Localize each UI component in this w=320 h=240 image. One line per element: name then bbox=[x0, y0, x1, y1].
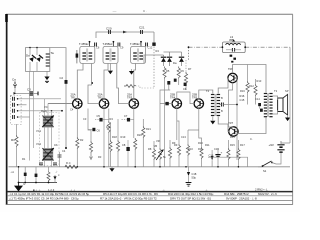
svg-text:R6: R6 bbox=[181, 69, 185, 73]
svg-text:TR1: TR1 bbox=[71, 96, 77, 100]
svg-text:R1: R1 bbox=[11, 138, 15, 142]
wire TR7 collector to output transformer bbox=[237, 118, 266, 134]
resistor R14 AGC horizontal bbox=[124, 85, 136, 88]
wire TR2 collector to IFT2 bbox=[104, 64, 108, 100]
resistor R24 stub bbox=[47, 167, 50, 183]
wire osc left leg down to gang bbox=[30, 71, 34, 160]
resistor R22 bbox=[200, 140, 203, 167]
diode D2 bbox=[36, 55, 43, 62]
resistor R9 bbox=[168, 140, 171, 167]
diode D5 bbox=[167, 52, 172, 66]
big ground lead bottom left bbox=[18, 167, 20, 183]
svg-text:50µ: 50µ bbox=[192, 175, 197, 179]
wire terminal 2 bbox=[18, 104, 26, 106]
svg-text:R1: R1 bbox=[22, 157, 26, 161]
svg-text:C·: C· bbox=[250, 137, 253, 141]
wire gang link 2 bbox=[47, 127, 49, 149]
wire gang to rail 1 bbox=[44, 161, 46, 167]
diode D3 bbox=[76, 50, 79, 63]
capacitor C17 below rail bbox=[186, 167, 197, 186]
transistor TR2 bbox=[98, 93, 109, 109]
svg-text:C16: C16 bbox=[214, 147, 219, 151]
top feedback wire bbox=[96, 32, 154, 38]
resistor R1 bbox=[11, 124, 18, 167]
svg-text:R10: R10 bbox=[198, 141, 203, 145]
capacitor C21 bbox=[139, 26, 145, 35]
wire antenna row bbox=[15, 92, 38, 94]
AGC dotted vertical wire bbox=[153, 47, 155, 89]
terminal J4 bbox=[13, 115, 19, 119]
junction dots on rail bbox=[18, 166, 240, 168]
IFT1 top tick bbox=[89, 41, 97, 47]
battery B1 bbox=[269, 141, 285, 159]
svg-text:Da: Da bbox=[173, 61, 177, 65]
bottom-left ground bus bbox=[19, 182, 58, 184]
svg-text:R4: R4 bbox=[156, 49, 160, 53]
svg-text:B: B bbox=[221, 96, 223, 100]
svg-text:C6: C6 bbox=[97, 129, 101, 133]
title block rule 2 bbox=[7, 195, 293, 197]
svg-text:C5: C5 bbox=[97, 114, 101, 118]
wire TR1 base bbox=[48, 103, 73, 105]
svg-text:R16: R16 bbox=[240, 89, 245, 93]
arrow mark left bbox=[14, 92, 17, 95]
wire right bus down bbox=[289, 47, 291, 143]
svg-text:R2: R2 bbox=[80, 138, 84, 142]
capacitor C6 bbox=[88, 128, 100, 133]
scattered small labels bbox=[10, 67, 262, 159]
svg-text:⊥2 C1 1µ C2 .04 10V R1 1k C3 1: ⊥2 C1 1µ C2 .04 10V R1 1k C3 10µ R2 56k … bbox=[9, 192, 89, 196]
wire detector top link bbox=[164, 51, 182, 53]
svg-text:R15: R15 bbox=[230, 143, 235, 147]
wire gang riser 2 bbox=[51, 111, 53, 116]
svg-text:Cb: Cb bbox=[183, 87, 187, 91]
wire IFT1 secondary to TR2 base bbox=[88, 64, 99, 104]
svg-text:C14: C14 bbox=[255, 97, 260, 101]
output transformer T3 bbox=[264, 93, 273, 117]
wire driver primary bottom to ground bbox=[212, 117, 214, 121]
svg-text:R7: R7 bbox=[188, 67, 192, 71]
speaker SP bbox=[278, 94, 288, 115]
antenna terminal capacitor C1 bbox=[12, 78, 17, 89]
wire osc line lower leg bbox=[65, 104, 67, 149]
junction dot osc top 2 bbox=[36, 47, 38, 49]
resistor R7 bbox=[184, 60, 187, 90]
wire TR2 emitter down bbox=[103, 108, 105, 167]
svg-text:R11: R11 bbox=[198, 147, 203, 151]
svg-text:R19: R19 bbox=[121, 135, 126, 139]
parts list row 2 text bbox=[9, 197, 257, 201]
capacitor C24 stub bbox=[35, 167, 38, 183]
junction dot osc top 1 bbox=[29, 47, 31, 49]
resistor R5 bbox=[163, 67, 166, 167]
arrow junction on top wire bbox=[123, 31, 127, 34]
label tank bbox=[229, 35, 234, 42]
capacitor C7 bbox=[122, 114, 134, 122]
IFT3 top tick bbox=[140, 41, 147, 47]
trimmer cap CT1 bbox=[39, 163, 43, 165]
svg-text:C ·: C · bbox=[143, 9, 147, 13]
wire gang link 3 bbox=[51, 127, 53, 149]
ground G5 speaker bbox=[285, 115, 290, 121]
svg-text:Da: Da bbox=[26, 54, 30, 58]
wire TR3 emitter down bbox=[133, 108, 135, 138]
ground G2 under IFT2 bbox=[108, 64, 113, 75]
diode D1 bbox=[29, 55, 36, 62]
ground G4 bbox=[210, 121, 215, 125]
driver transformer T2 bbox=[211, 94, 220, 116]
transistor TR6 bbox=[228, 67, 237, 83]
wire gang riser 1 bbox=[44, 99, 46, 116]
svg-text:S1: S1 bbox=[263, 169, 267, 173]
svg-text:C13: C13 bbox=[181, 135, 186, 139]
svg-text:Ca: Ca bbox=[12, 78, 16, 82]
variable capacitor VC2 bbox=[42, 148, 54, 161]
wire battery top hook bbox=[281, 141, 290, 143]
tuning gang dashed box bbox=[40, 113, 60, 166]
wire terminal 4 bbox=[18, 116, 30, 118]
svg-text:R10 220 C11 30µ R12 1.5k C13 5: R10 220 C11 30µ R12 1.5k C13 50µ bbox=[168, 192, 214, 196]
wire gang to rail 2 bbox=[51, 161, 53, 167]
svg-text:R4: R4 bbox=[110, 117, 114, 121]
parts list row 1 text bbox=[9, 192, 277, 196]
wire TR3 collector to IFT3 bbox=[134, 64, 136, 100]
svg-text:△1 T1 455kc IFT×3 OSC C5 .04 R: △1 T1 455kc IFT×3 OSC C5 .04 R3 10k R4 6… bbox=[9, 197, 79, 201]
svg-text:C20: C20 bbox=[106, 27, 112, 31]
wire terminal 1 bbox=[18, 98, 61, 100]
diode D7 stub bbox=[53, 175, 56, 183]
svg-text:C4: C4 bbox=[62, 149, 66, 153]
wire TR4 emitter bias bbox=[177, 108, 179, 140]
electrolytic capacitor C16 bbox=[209, 148, 223, 167]
tank coil bbox=[226, 43, 241, 45]
svg-text:⊥ ⊥: ⊥ ⊥ bbox=[70, 188, 76, 192]
svg-text:⊥A: ⊥A bbox=[10, 170, 14, 174]
svg-text:⊥·: ⊥· bbox=[55, 170, 58, 174]
svg-text:R7 1k 2SA101×2 · VR 5k C10 50µ: R7 1k 2SA101×2 · VR 5k C10 50µ R9 150 T2 bbox=[100, 197, 157, 201]
wire TR1 collector to IFT1 bbox=[77, 64, 83, 100]
wire TR6 collector to output transformer bbox=[233, 65, 266, 93]
diode D4 detector bbox=[161, 55, 166, 66]
coupling capacitor C13 bbox=[165, 102, 168, 105]
capacitor C2 on osc coupling bbox=[60, 76, 68, 84]
svg-text:R20: R20 bbox=[137, 133, 142, 137]
svg-text:R3: R3 bbox=[98, 155, 102, 159]
tank capacitor bbox=[226, 48, 241, 52]
variable capacitor VC1 bbox=[42, 116, 54, 128]
svg-text:6F22 9V · 2⊥6: 6F22 9V · 2⊥6 bbox=[258, 192, 277, 196]
svg-text:C7: C7 bbox=[124, 114, 128, 118]
svg-text:R·C: R·C bbox=[66, 161, 71, 165]
resistor R11 bbox=[186, 130, 189, 167]
border left top accent bbox=[5, 14, 8, 22]
border frame left (thick) bbox=[6, 14, 8, 205]
wire osc to ground bbox=[46, 71, 48, 76]
svg-text:C6: C6 bbox=[96, 46, 100, 50]
svg-text:C4: C4 bbox=[70, 108, 74, 112]
capacitor C4b marks bbox=[58, 155, 62, 157]
border frame right bbox=[292, 14, 294, 204]
svg-text:R16: R16 bbox=[240, 94, 245, 98]
tank tick marks bbox=[230, 39, 236, 62]
terminal end bar bbox=[37, 92, 39, 96]
terminal J2 bbox=[13, 103, 19, 107]
tank circuit dash-dot feed right bbox=[245, 46, 290, 48]
capacitor C8 blob bbox=[122, 140, 130, 167]
svg-text:C2: C2 bbox=[60, 76, 64, 80]
IF transformer IFT1 bbox=[79, 42, 95, 63]
wire TR5 emitter down bbox=[188, 108, 202, 140]
capacitor C20 bbox=[106, 27, 112, 35]
svg-text:VC1: VC1 bbox=[36, 129, 42, 133]
svg-text:■·⊥·⊥: ■·⊥·⊥ bbox=[33, 188, 42, 192]
resistor R6 bbox=[177, 67, 180, 86]
transistor TR1 bbox=[71, 93, 83, 109]
IFT2 top tick bbox=[113, 41, 120, 47]
ground G6 below rail bbox=[109, 167, 114, 172]
transistor TR3 bbox=[127, 93, 139, 109]
resistor R4 bbox=[107, 109, 110, 167]
junction dot tank left bbox=[222, 46, 224, 48]
ground G1 bbox=[44, 77, 49, 83]
schematic main ground rail bbox=[9, 166, 291, 168]
wire volume feed bbox=[160, 90, 170, 148]
wire IFT2 secondary to TR3 base bbox=[117, 64, 129, 104]
capacitor C19 blob bbox=[258, 103, 263, 112]
svg-text:R17: R17 bbox=[240, 143, 245, 147]
border frame top bbox=[6, 13, 293, 15]
wire driver secondary bottom to TR7 base bbox=[218, 117, 229, 132]
svg-text:VC: VC bbox=[44, 105, 48, 109]
svg-text:C18: C18 bbox=[192, 172, 197, 176]
border frame bottom bbox=[6, 203, 293, 205]
wire T3 secondary to speaker bbox=[273, 96, 278, 114]
resistor R10 bbox=[177, 140, 180, 167]
wire TR6 TR7 emitter bus bbox=[229, 83, 234, 128]
wire terminal 3 bbox=[18, 110, 63, 112]
svg-text:B: B bbox=[221, 109, 223, 113]
capacitor C23 stub bbox=[24, 167, 27, 183]
capacitor C10 blob bbox=[167, 81, 170, 90]
wire left bottom stub bbox=[59, 152, 61, 167]
svg-text:R5: R5 bbox=[166, 69, 170, 73]
diode D6 bbox=[179, 52, 184, 66]
resistor R8 bbox=[152, 141, 155, 167]
resistor R3 bbox=[88, 109, 93, 160]
oscillator coil windings bbox=[46, 54, 50, 66]
svg-text:R12: R12 bbox=[249, 84, 254, 88]
ground G3 under IFT3 bbox=[129, 69, 134, 75]
svg-text:C12: C12 bbox=[148, 46, 153, 50]
resistor R12 bbox=[246, 76, 249, 105]
terminal block dashed box bbox=[11, 96, 22, 125]
junction dot IFT1 secondary bbox=[91, 82, 93, 84]
title block top thick rule bbox=[7, 191, 293, 193]
wire osc internal verticals bbox=[30, 48, 37, 72]
svg-text:R8: R8 bbox=[148, 147, 152, 151]
switch S1 bbox=[258, 159, 281, 173]
trimmer cap CT2 bbox=[53, 163, 57, 165]
svg-text:VR: VR bbox=[156, 139, 160, 143]
svg-text:T.455kc↑: T.455kc↑ bbox=[79, 42, 91, 46]
svg-text:9V 006P · 2SA102 · ⊥·8: 9V 006P · 2SA102 · ⊥·8 bbox=[226, 197, 257, 201]
svg-text:R9: R9 bbox=[174, 143, 178, 147]
svg-text:R21: R21 bbox=[146, 127, 151, 131]
svg-text:DRV T3 OUT SP 8Ω S1 SW · B1: DRV T3 OUT SP 8Ω S1 SW · B1 bbox=[170, 197, 211, 201]
svg-text:R15: R15 bbox=[230, 135, 235, 139]
svg-text:TR2: TR2 bbox=[98, 96, 104, 100]
wire gang riser 0 bbox=[47, 104, 49, 116]
junction dot mid bus bbox=[236, 104, 238, 106]
svg-text:TR3: TR3 bbox=[127, 96, 133, 100]
svg-text:R11: R11 bbox=[205, 143, 210, 147]
svg-text:Ca·b: Ca·b bbox=[41, 109, 48, 113]
capacitor C22 blob bbox=[152, 43, 155, 46]
labels above title rule bbox=[33, 188, 268, 192]
resistor R21 bbox=[142, 119, 145, 167]
svg-text:T.455kc↑: T.455kc↑ bbox=[103, 42, 115, 46]
ground G0 big bbox=[15, 183, 22, 191]
wire B minus feed bbox=[208, 157, 248, 167]
svg-text:C21: C21 bbox=[139, 26, 145, 30]
svg-text:10k: 10k bbox=[106, 125, 111, 129]
svg-text:C15: C15 bbox=[240, 98, 245, 102]
junction dot tank right bbox=[244, 46, 246, 48]
svg-text:C9: C9 bbox=[120, 46, 124, 50]
svg-text:Cb: Cb bbox=[54, 143, 58, 147]
svg-text:+: + bbox=[221, 151, 223, 155]
resistor R2 TR1 emitter bbox=[76, 108, 79, 167]
wire TR5 collector to driver primary bbox=[199, 90, 213, 99]
wire IFT3 secondary to detector bbox=[144, 55, 164, 64]
transistor TR7 bbox=[228, 121, 238, 136]
wire gang link 1 bbox=[44, 127, 46, 149]
wire top line down to AGC node bbox=[153, 32, 155, 43]
resistor R19 bbox=[116, 119, 119, 167]
resistor R13 bbox=[254, 79, 257, 105]
driver center tap capacitor C14 bbox=[219, 103, 237, 107]
svg-text:R5 2.2k C7 10µ R6 100 C9 .01 R: R5 2.2k C7 10µ R6 100 C9 .01 R8 4.7k · R… bbox=[103, 192, 158, 196]
svg-text:VC2: VC2 bbox=[36, 142, 42, 146]
resistor R20 bbox=[134, 138, 137, 167]
transistor TR4 bbox=[170, 93, 182, 109]
capacitor C3 electrolytic bbox=[27, 88, 32, 97]
extra small labels bbox=[22, 46, 289, 162]
oscillator box L2 bbox=[26, 48, 50, 72]
resistor R17 bbox=[237, 140, 240, 167]
svg-text:2 RN2·• ·L: 2 RN2·• ·L bbox=[255, 188, 268, 192]
svg-text:R10: R10 bbox=[188, 147, 193, 151]
svg-text:C3: C3 bbox=[27, 88, 31, 92]
svg-text:Ta: Ta bbox=[51, 51, 55, 55]
wire mid vertical bus bbox=[236, 77, 238, 160]
wire osc top to TR1 base bbox=[50, 48, 66, 104]
tank box L3 bbox=[222, 42, 245, 53]
wire VR wiper to TR4 base bbox=[160, 103, 172, 105]
capacitor C11 blob bbox=[174, 79, 177, 82]
wire antenna cap down bbox=[14, 88, 16, 93]
transistor TR5 bbox=[192, 93, 204, 109]
wire AGC to resistor bbox=[136, 86, 154, 88]
svg-text:1·2·3: 1·2·3 bbox=[48, 188, 55, 192]
capacitor C18 dark blob bbox=[211, 150, 214, 167]
resistor R15 bbox=[227, 140, 230, 167]
capacitor C5 bbox=[95, 114, 109, 122]
terminal J1 bbox=[13, 97, 19, 101]
terminal J3 bbox=[13, 109, 19, 113]
capacitor C12 blob bbox=[183, 83, 187, 91]
resistor R18 bbox=[109, 122, 112, 167]
svg-text:R13: R13 bbox=[257, 79, 262, 83]
tank circuit dash-dot feed left bbox=[189, 46, 223, 48]
IF transformer IFT2 bbox=[103, 42, 119, 63]
svg-text:SP: SP bbox=[285, 89, 289, 93]
svg-text:C3: C3 bbox=[83, 117, 87, 121]
svg-text:R14 68k · 2SB75×2: R14 68k · 2SB75×2 bbox=[224, 192, 249, 196]
IF transformer IFT3 bbox=[130, 42, 146, 63]
svg-text:+9V: +9V bbox=[269, 143, 274, 147]
resistor R23 in rail bbox=[65, 165, 77, 168]
svg-text:R18: R18 bbox=[112, 135, 117, 139]
title block rule 3 bbox=[7, 200, 293, 202]
svg-text:TR4: TR4 bbox=[170, 96, 176, 100]
svg-text:J·: J· bbox=[58, 173, 60, 177]
svg-text:·—·: ·—· bbox=[112, 9, 117, 13]
AGC vertical from tank line bbox=[188, 46, 190, 60]
svg-text:C8: C8 bbox=[122, 143, 126, 147]
wire driver secondary top to TR6 base bbox=[218, 78, 228, 94]
svg-text:T.455kc↑: T.455kc↑ bbox=[130, 42, 142, 46]
volume control VR with arrow bbox=[154, 144, 164, 167]
svg-text:⊥·: ⊥· bbox=[205, 188, 208, 192]
svg-text:TR5: TR5 bbox=[192, 96, 198, 100]
wire TR4 collector to TR5 bbox=[177, 92, 194, 104]
wire R12 tap bbox=[247, 65, 249, 76]
junction dots ground bus bbox=[18, 182, 50, 184]
